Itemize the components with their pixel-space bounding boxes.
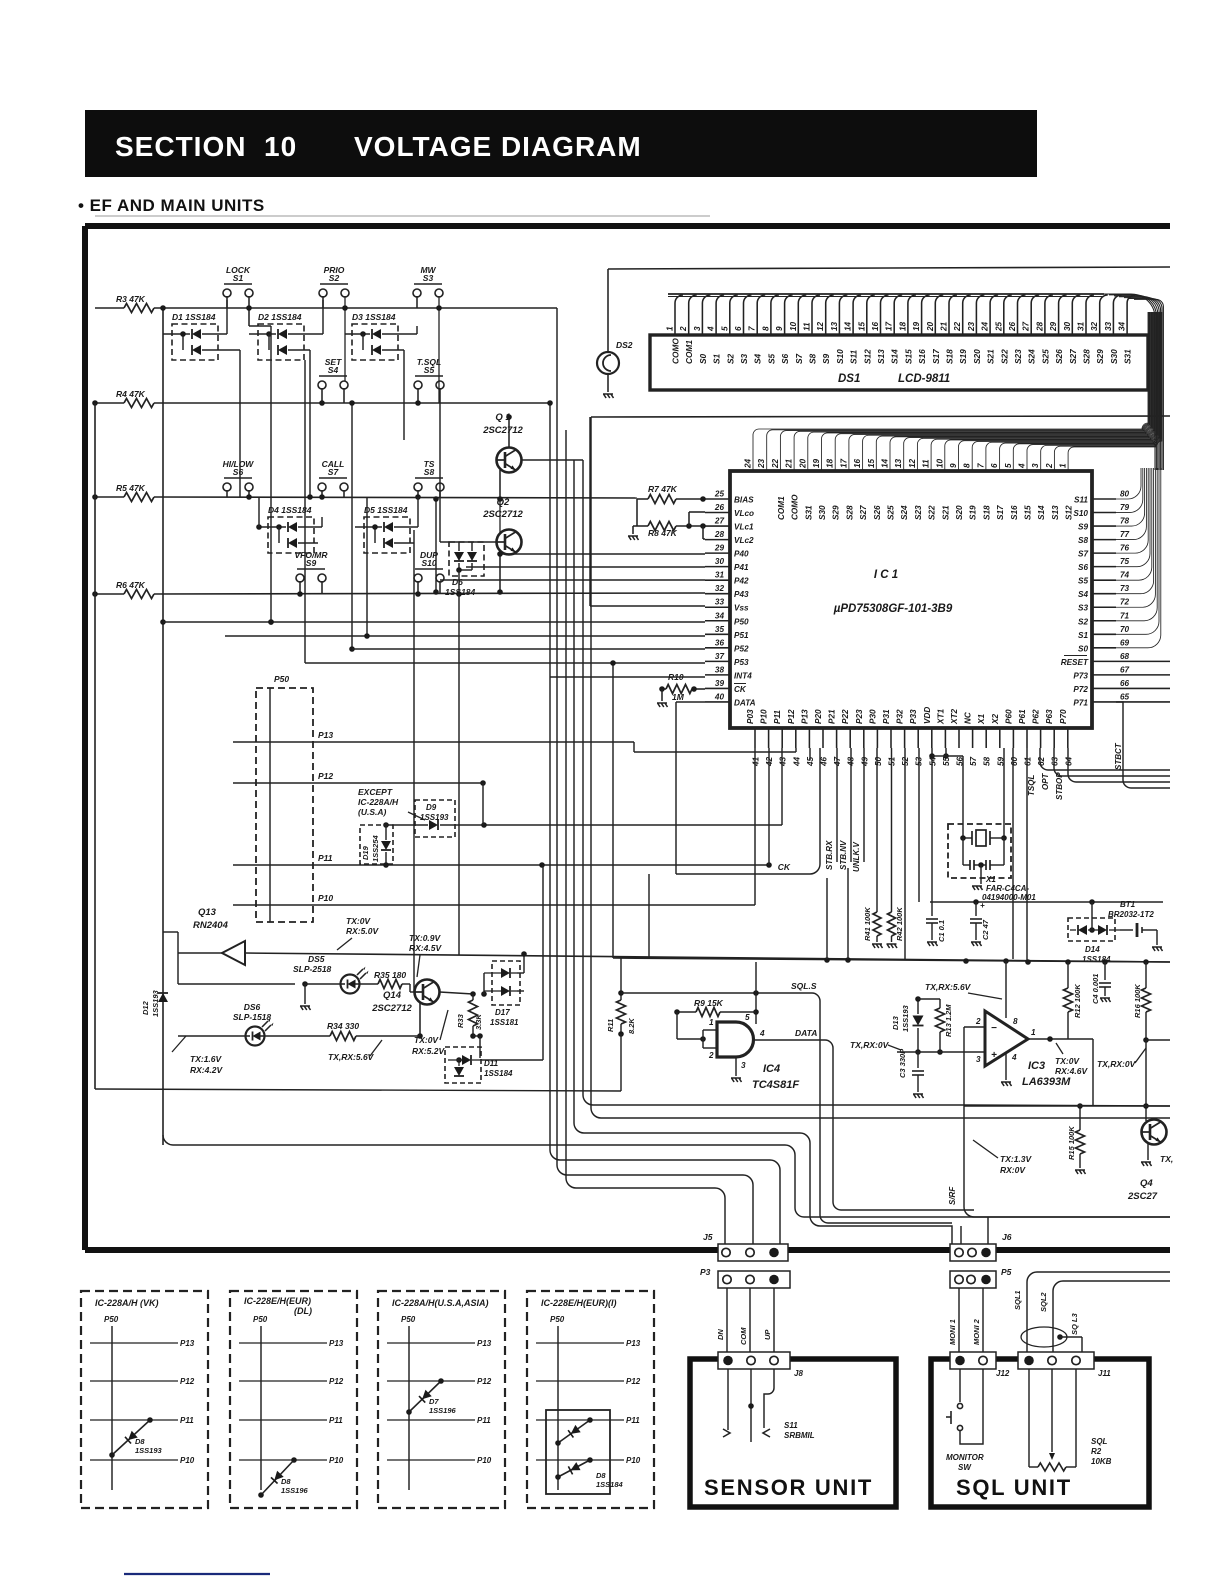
svg-text:31: 31 (1077, 321, 1086, 331)
svg-text:DATA: DATA (734, 698, 756, 707)
svg-text:SW: SW (958, 1463, 972, 1472)
svg-text:OPT: OPT (1041, 772, 1050, 790)
svg-text:P13: P13 (329, 1339, 344, 1348)
svg-text:66: 66 (1120, 679, 1130, 688)
AND gate IC4 TC4S81F (717, 1022, 754, 1057)
IC1 right pin 69 S0 (1092, 647, 1116, 649)
svg-text:S23: S23 (1013, 349, 1023, 364)
wire IC3 pin8 (1005, 961, 1007, 1018)
svg-text:27: 27 (714, 517, 725, 526)
svg-text:P42: P42 (734, 577, 749, 586)
DS1 pin 17 S14 (894, 295, 902, 335)
svg-text:17: 17 (839, 458, 848, 468)
svg-text:R41 100K: R41 100K (863, 907, 872, 941)
wire P3 to J8 DN (726, 1288, 728, 1352)
svg-text:11: 11 (922, 459, 931, 468)
svg-text:S8: S8 (1078, 536, 1088, 545)
wire P41 row (466, 566, 705, 568)
svg-text:X2: X2 (991, 714, 1000, 725)
svg-text:24: 24 (981, 321, 990, 332)
wire P43 row (612, 663, 614, 958)
svg-text:S3: S3 (423, 273, 434, 283)
svg-text:P62: P62 (1032, 709, 1041, 724)
svg-text:+: + (991, 1050, 997, 1061)
svg-text:DS1: DS1 (838, 373, 860, 385)
svg-text:73: 73 (1120, 584, 1130, 593)
DS1 pin 21 S18 (949, 295, 957, 335)
svg-text:VLc2: VLc2 (734, 536, 754, 545)
svg-text:R16 100K: R16 100K (1133, 984, 1142, 1018)
svg-text:C3 330P: C3 330P (898, 1048, 907, 1078)
svg-text:R7 47K: R7 47K (648, 484, 678, 494)
svg-text:2: 2 (975, 1017, 981, 1026)
diode D9 1SS193 (415, 800, 455, 837)
svg-text:C4 0.001: C4 0.001 (1091, 974, 1100, 1004)
svg-text:S4: S4 (328, 365, 339, 375)
svg-text:BT1: BT1 (1120, 900, 1136, 909)
switch MONITOR SW (959, 1369, 961, 1402)
wire P40 row (500, 553, 705, 555)
svg-text:J8: J8 (794, 1369, 803, 1378)
svg-text:28: 28 (1035, 321, 1044, 332)
svg-text:P50: P50 (253, 1315, 268, 1324)
svg-text:26: 26 (714, 503, 725, 512)
svg-text:DATA: DATA (795, 1028, 817, 1038)
DS1 pin 4 S1 (716, 295, 724, 335)
svg-text:S8: S8 (808, 353, 818, 364)
svg-text:VLco: VLco (734, 509, 754, 518)
svg-text:SENSOR UNIT: SENSOR UNIT (704, 1475, 873, 1500)
diode D8 1SS193 (VK) (112, 1420, 150, 1455)
IC1 right pin 79 S10 (1092, 512, 1116, 514)
svg-text:S17: S17 (996, 505, 1005, 520)
svg-text:RX:4.2V: RX:4.2V (190, 1065, 223, 1075)
variant box IC-228A/H(U.S.A,ASIA) (378, 1291, 505, 1508)
svg-text:S22: S22 (928, 505, 937, 520)
svg-text:1SS196: 1SS196 (429, 1406, 457, 1415)
svg-text:41: 41 (752, 756, 761, 767)
svg-text:75: 75 (1120, 557, 1130, 566)
IC1 left pin 35 P51 (705, 633, 730, 635)
svg-text:04194000-M01: 04194000-M01 (982, 893, 1036, 902)
svg-text:P10: P10 (329, 1456, 344, 1465)
DS1 pin 28 S25 (1045, 295, 1053, 335)
DS1 pin 6 S3 (744, 295, 752, 335)
IC1 left pin 38 INT4 (705, 674, 730, 676)
svg-text:TX,RX:0V: TX,RX:0V (850, 1040, 890, 1050)
svg-text:25: 25 (994, 321, 1003, 332)
svg-text:BR2032-1T2: BR2032-1T2 (1108, 910, 1154, 919)
ground R41 (872, 944, 883, 948)
svg-text:P40: P40 (734, 550, 749, 559)
svg-text:P11: P11 (477, 1416, 491, 1425)
svg-text:S28: S28 (845, 505, 854, 520)
svg-text:XT1: XT1 (936, 709, 945, 725)
svg-text:3: 3 (741, 1061, 746, 1070)
svg-text:P12: P12 (477, 1377, 492, 1386)
svg-text:RX:4.5V: RX:4.5V (409, 943, 442, 953)
svg-text:SRBMIL: SRBMIL (784, 1431, 815, 1440)
svg-text:S12: S12 (1065, 505, 1074, 520)
svg-text:D14: D14 (1085, 945, 1100, 954)
svg-text:S6: S6 (1078, 563, 1088, 572)
svg-text:S5: S5 (766, 353, 776, 364)
svg-text:1SS254: 1SS254 (371, 834, 380, 862)
svg-text:S9: S9 (306, 558, 317, 568)
svg-text:−: − (991, 1023, 997, 1034)
svg-text:63: 63 (1051, 756, 1060, 766)
ground R42 (887, 944, 898, 948)
svg-text:34: 34 (1118, 321, 1127, 331)
svg-text:R34 330: R34 330 (327, 1021, 359, 1031)
IC1 bottom pin 41 P03 (754, 728, 756, 748)
ground Q4 (1141, 1162, 1152, 1166)
IC U1 IC1 uPD75308GF-101-3B9 (730, 471, 1092, 728)
capacitor C1 0.1 (931, 902, 933, 916)
svg-text:P12: P12 (787, 709, 796, 724)
svg-text:1: 1 (709, 1018, 714, 1027)
svg-text:10KB: 10KB (1091, 1457, 1112, 1466)
svg-text:29: 29 (714, 544, 725, 553)
svg-text:S30: S30 (1109, 349, 1119, 364)
svg-text:I C 1: I C 1 (874, 569, 898, 581)
svg-text:(U.S.A): (U.S.A) (358, 807, 387, 817)
IC1 bottom pin 47 P21 (836, 728, 838, 748)
svg-text:79: 79 (1120, 503, 1130, 512)
svg-text:D8: D8 (135, 1437, 145, 1446)
variant box IC-228A/H (VK) (81, 1291, 208, 1508)
wire P3 to J8 COM (749, 1288, 751, 1352)
svg-text:1: 1 (1031, 1028, 1036, 1037)
connector J11 (1018, 1352, 1094, 1369)
svg-text:P70: P70 (1059, 709, 1068, 724)
svg-text:S20: S20 (972, 349, 982, 364)
svg-text:10: 10 (789, 321, 798, 331)
switch S8 TS (414, 483, 422, 491)
DS1 pin 5 S2 (730, 295, 738, 335)
svg-text:TX:0V: TX:0V (414, 1035, 439, 1045)
IC1 left pin 37 P53 (705, 660, 730, 662)
DS1 pin 25 S22 (1004, 295, 1012, 335)
svg-text:3: 3 (693, 326, 702, 331)
IC1 right pin 77 S8 (1092, 539, 1116, 541)
cable loop ellipse (1021, 1327, 1067, 1347)
svg-text:76: 76 (1120, 544, 1130, 553)
svg-text:32: 32 (715, 584, 725, 593)
svg-text:COMO: COMO (791, 494, 800, 520)
wire DS1 pin bus rail (668, 293, 1104, 295)
svg-text:S12: S12 (862, 349, 872, 364)
svg-text:S11: S11 (784, 1421, 798, 1430)
svg-text:11: 11 (803, 322, 812, 331)
wire CK corner (800, 748, 820, 874)
svg-text:S15: S15 (903, 349, 913, 364)
svg-text:P63: P63 (1045, 709, 1054, 724)
IC1 bottom pin 48 P22 (849, 728, 851, 748)
wire row 1175 to J5 pin2 (557, 1165, 753, 1244)
svg-text:1SS184: 1SS184 (596, 1480, 624, 1489)
IC1 bottom pin 50 P30 (876, 728, 878, 748)
svg-text:1SS193: 1SS193 (901, 1004, 910, 1032)
svg-text:MONI 2: MONI 2 (972, 1318, 981, 1345)
svg-text:S7: S7 (1078, 550, 1088, 559)
svg-text:13: 13 (830, 321, 839, 331)
svg-text:64: 64 (1064, 756, 1073, 766)
svg-text:S21: S21 (941, 505, 950, 520)
svg-text:S19: S19 (958, 349, 968, 364)
DS1 pin 18 S15 (908, 295, 916, 335)
wire STB.NV line (850, 748, 852, 862)
IC1 right pin 65 P71 (1092, 701, 1116, 703)
svg-text:25: 25 (714, 490, 725, 499)
svg-text:8: 8 (761, 326, 770, 331)
svg-text:TX:1.6V: TX:1.6V (190, 1054, 223, 1064)
svg-text:P13: P13 (626, 1339, 641, 1348)
svg-text:P13: P13 (318, 730, 333, 740)
svg-text:P31: P31 (882, 709, 891, 724)
DS1 pin 14 S11 (853, 295, 861, 335)
IC1 right pin 70 S1 (1092, 633, 1116, 635)
svg-text:S29: S29 (1095, 349, 1105, 364)
svg-text:60: 60 (1010, 756, 1019, 766)
svg-text:CK: CK (778, 862, 791, 872)
switch S9 VFO/MR (296, 574, 304, 582)
svg-text:D1 1SS184: D1 1SS184 (172, 312, 216, 322)
svg-text:• EF AND MAIN UNITS: • EF AND MAIN UNITS (78, 196, 265, 215)
svg-text:TX,RX:5.6V: TX,RX:5.6V (328, 1052, 375, 1062)
svg-text:58: 58 (983, 756, 992, 766)
DS1 pin 32 S29 (1100, 295, 1108, 335)
wire DATA row (676, 701, 705, 703)
svg-text:43: 43 (779, 756, 788, 767)
svg-text:1SS181: 1SS181 (490, 1018, 519, 1027)
IC1 bottom pin 45 P13 (808, 728, 810, 748)
svg-text:R15 100K: R15 100K (1067, 1126, 1076, 1160)
svg-text:S16: S16 (1010, 505, 1019, 520)
IC1 left pin 27 VLc1 (705, 525, 730, 527)
wire P52 row (352, 648, 705, 650)
wire row 1118 (591, 1108, 1170, 1118)
svg-text:BIAS: BIAS (734, 496, 754, 505)
svg-text:S/RF: S/RF (948, 1186, 957, 1205)
svg-text:S13: S13 (876, 349, 886, 364)
svg-text:S7: S7 (794, 353, 804, 364)
IC1 left pin 34 P50 (705, 620, 730, 622)
svg-text:71: 71 (1120, 611, 1130, 620)
IC1 right pin 80 S11 (1092, 498, 1116, 500)
svg-text:P12: P12 (180, 1377, 195, 1386)
ground C2 (971, 942, 982, 946)
IC1 right pin 67 P73 (1092, 674, 1116, 676)
svg-text:S28: S28 (1082, 349, 1092, 364)
svg-text:D9: D9 (426, 803, 437, 812)
DS1 pin 20 S17 (935, 295, 943, 335)
DS1 pin 15 S12 (867, 295, 875, 335)
IC1 right pin 68 RESET (1092, 660, 1116, 662)
svg-text:16: 16 (853, 458, 862, 468)
svg-text:S3: S3 (739, 353, 749, 364)
svg-text:S26: S26 (1054, 349, 1064, 364)
IC1 left pin 31 P42 (705, 579, 730, 581)
IC1 left pin 25 BIAS (705, 498, 730, 500)
connector J8 (718, 1352, 790, 1369)
switch S10 DUP (414, 574, 422, 582)
DS1 pin 9 S6 (785, 295, 793, 335)
wire P71 STBCT (1116, 702, 1170, 788)
svg-text:S11: S11 (1074, 496, 1088, 505)
IC1 bottom pin 61 P61 (1026, 728, 1028, 748)
svg-text:TX:0V: TX:0V (346, 916, 371, 926)
svg-text:S31: S31 (1123, 349, 1133, 364)
svg-text:2SC27: 2SC27 (1127, 1191, 1158, 1202)
svg-text:UP: UP (763, 1329, 772, 1340)
svg-text:R13 1.2M: R13 1.2M (944, 1004, 953, 1037)
variant box IC-228E/H(EUR)(DL) (230, 1291, 357, 1508)
svg-text:5: 5 (720, 326, 729, 331)
svg-text:S18: S18 (982, 505, 991, 520)
svg-text:S5: S5 (424, 365, 435, 375)
svg-text:S6: S6 (780, 353, 790, 364)
svg-text:35: 35 (715, 625, 725, 634)
wire bus column 3 (565, 430, 567, 1178)
unit box SENSOR UNIT (690, 1359, 896, 1507)
svg-text:P10: P10 (626, 1456, 641, 1465)
svg-text:S6: S6 (233, 467, 244, 477)
diode pack D17 1SS181 (492, 961, 520, 1005)
wire bus column 1 (549, 403, 551, 1150)
ground R10 (661, 689, 663, 701)
svg-text:D12: D12 (141, 1000, 150, 1015)
svg-text:30: 30 (715, 557, 725, 566)
svg-text:4: 4 (759, 1029, 765, 1038)
svg-text:2SC2712: 2SC2712 (482, 425, 523, 436)
wire row 1106 (964, 1105, 1170, 1107)
capacitor C2 47 (975, 902, 977, 916)
svg-text:28: 28 (714, 530, 725, 539)
svg-text:17: 17 (885, 321, 894, 331)
svg-text:23: 23 (967, 321, 976, 332)
wire row 1160 to J5 pin3 (550, 1150, 780, 1244)
svg-text:10: 10 (935, 458, 944, 468)
svg-text:P03: P03 (746, 709, 755, 724)
svg-text:(DL): (DL) (294, 1306, 312, 1316)
wire column to D11 (542, 865, 544, 1060)
svg-text:22: 22 (771, 458, 780, 469)
diode D7 1SS196 (USA) (409, 1381, 441, 1412)
svg-text:20: 20 (798, 458, 807, 469)
svg-text:D3 1SS184: D3 1SS184 (352, 312, 396, 322)
svg-text:6: 6 (990, 463, 999, 468)
svg-text:SQL1: SQL1 (1013, 1290, 1022, 1310)
DS1 pin 24 S21 (990, 295, 998, 335)
svg-text:SLP-2518: SLP-2518 (293, 964, 332, 974)
svg-text:S16: S16 (917, 349, 927, 364)
svg-text:13: 13 (894, 458, 903, 468)
IC1 bottom pin 56 XT2 (958, 728, 960, 748)
unit box SQL UNIT (931, 1359, 1149, 1507)
wire row below DS1 (591, 416, 1170, 417)
svg-text:SQL UNIT: SQL UNIT (956, 1475, 1072, 1500)
svg-text:P73: P73 (1073, 671, 1088, 680)
svg-text:34: 34 (715, 611, 725, 620)
DS1 pin 31 S28 (1086, 295, 1094, 335)
svg-text:IC4: IC4 (763, 1063, 780, 1075)
DS1 pin 23 S20 (976, 295, 984, 335)
IC1 bottom pin 54 VDD (931, 728, 933, 748)
svg-text:S7: S7 (328, 467, 340, 477)
svg-text:P50: P50 (401, 1315, 416, 1324)
ground C4 (1100, 998, 1111, 1002)
svg-text:S10: S10 (421, 558, 436, 568)
svg-text:7: 7 (748, 326, 757, 331)
wire P60 P61 columns down (1012, 748, 1014, 959)
svg-text:S2: S2 (725, 353, 735, 364)
svg-text:VOLTAGE DIAGRAM: VOLTAGE DIAGRAM (354, 131, 642, 162)
diode pack D8 1SS184 (I) (546, 1410, 610, 1494)
svg-text:J6: J6 (1002, 1232, 1012, 1242)
wire left column A (162, 308, 164, 1145)
IC1 left pin 40 DATA (705, 701, 730, 703)
svg-text:C1 0.1: C1 0.1 (937, 920, 946, 942)
svg-text:14: 14 (881, 458, 890, 468)
wire P72 P73 RESET rows right (1116, 689, 1170, 691)
svg-text:R5 47K: R5 47K (116, 483, 146, 493)
wire Q14 collector to D17 (483, 973, 485, 994)
svg-text:62: 62 (1037, 756, 1046, 766)
svg-text:LA6393M: LA6393M (1022, 1076, 1071, 1088)
wire IC3 pin4 ground (1005, 1052, 1007, 1080)
svg-text:65: 65 (1120, 692, 1130, 701)
svg-text:D13: D13 (891, 1015, 900, 1030)
display DS1 LCD-9811 (650, 335, 1148, 390)
wire J6 risers (960, 1226, 962, 1244)
wire X1 column (985, 748, 987, 756)
wire row 1146 (163, 1135, 1170, 1217)
svg-text:SLP-1518: SLP-1518 (233, 1012, 272, 1022)
svg-text:RESET: RESET (1061, 658, 1089, 667)
svg-text:19: 19 (812, 458, 821, 468)
svg-text:4: 4 (1011, 1053, 1017, 1062)
diode pack D14 1SS184 (1068, 918, 1115, 941)
DS1 pin 2 COM1 (689, 295, 697, 335)
DS1 pin 27 S24 (1031, 295, 1039, 335)
svg-text:P20: P20 (814, 709, 823, 724)
svg-text:X1: X1 (985, 875, 996, 884)
svg-text:S31: S31 (804, 505, 813, 520)
svg-text:D8: D8 (596, 1471, 606, 1480)
svg-text:IC-228E/H(EUR): IC-228E/H(EUR) (244, 1296, 311, 1306)
svg-text:MONITOR: MONITOR (946, 1453, 984, 1462)
svg-text:21: 21 (785, 458, 794, 469)
wire P53 row (305, 662, 705, 664)
svg-text:46: 46 (820, 756, 829, 767)
svg-text:D7: D7 (429, 1397, 439, 1406)
IC4 input pins 1 2 (677, 1038, 703, 1040)
page footer mark (124, 1573, 270, 1575)
svg-text:P5: P5 (1001, 1267, 1012, 1277)
svg-text:S29: S29 (832, 505, 841, 520)
wire P32 P33 columns down (904, 748, 906, 960)
IC1 bottom pin 62 P62 (1040, 728, 1042, 748)
DS1 pin 34 S31 (1127, 295, 1135, 335)
DS1 pin 30 S27 (1072, 295, 1080, 335)
svg-text:IC-228A/H: IC-228A/H (358, 797, 399, 807)
svg-text:29: 29 (1049, 321, 1058, 332)
svg-text:P13: P13 (477, 1339, 492, 1348)
svg-text:S27: S27 (859, 505, 868, 520)
svg-text:TX,: TX, (1160, 1154, 1173, 1164)
DS1 pin 29 S26 (1059, 295, 1067, 335)
